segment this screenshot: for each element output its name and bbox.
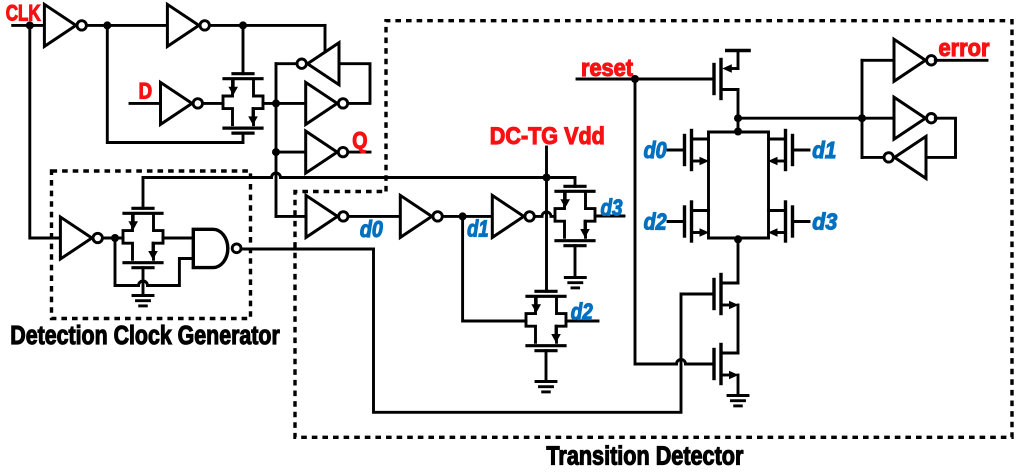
transistor M3 (d2)	[685, 202, 710, 241]
wire TG4 out	[566, 320, 598, 323]
transmission gate TG4 (d2)	[526, 291, 566, 350]
wire reset input	[577, 78, 712, 81]
wire detect clock path	[374, 249, 714, 412]
wire M4 gate lead	[793, 220, 810, 223]
box Transition Detector	[295, 21, 1012, 438]
wire error out	[935, 59, 987, 62]
wire dc-tg horizontal with hop	[143, 173, 575, 186]
inverter U11 (d1 buffer)	[492, 195, 534, 237]
svg-text:d1: d1	[812, 137, 836, 163]
nand gate U8	[193, 229, 228, 267]
wire Q1 drain down	[737, 90, 740, 133]
wire CLK input	[13, 24, 45, 27]
transistor M1 (d0)	[685, 131, 710, 170]
svg-text:CLK: CLK	[6, 0, 41, 25]
wire error latch vertical	[861, 60, 864, 157]
node dctg junction	[543, 174, 551, 182]
wire latch bus vertical	[275, 64, 278, 217]
wire TG1 top gate to clk2	[242, 25, 245, 73]
wire clk tap down to tristate inverter	[324, 25, 327, 53]
ground TG3	[565, 278, 585, 288]
inverter U10 (d1)	[400, 195, 442, 237]
node error latch junction	[858, 114, 866, 122]
wire TG4 bottom to ground	[545, 351, 548, 381]
node H top junction	[734, 128, 742, 136]
svg-text:d3: d3	[812, 208, 837, 234]
wire d0	[348, 215, 400, 218]
ground M6	[728, 396, 748, 406]
wire U1 out	[87, 24, 168, 27]
inverter U7 (clock gen input)	[60, 217, 102, 259]
svg-text:d1: d1	[467, 216, 489, 242]
wire NAND out	[242, 248, 374, 251]
wire H frame	[709, 131, 769, 134]
wire D input	[130, 102, 161, 105]
inverter U4 (feedback, tristate, points left)	[297, 43, 339, 85]
node latch junction	[272, 99, 280, 107]
node clockgen junction	[111, 234, 119, 242]
svg-text:Transition Detector: Transition Detector	[546, 443, 743, 471]
wire TG3 bottom to ground	[574, 246, 577, 277]
wire TG2 top gate up	[142, 178, 145, 209]
inverter U14 (keeper back, points left)	[884, 136, 926, 178]
wire Q tap	[276, 151, 306, 154]
wire dctg vertical to TG4	[545, 178, 548, 292]
svg-text:D: D	[139, 78, 153, 103]
wire d1 branch down to TG4	[463, 216, 526, 321]
transmission gate TG2	[123, 208, 163, 267]
transistor Q1 (reset PMOS)	[714, 60, 738, 99]
wire U5 out feedback loop	[339, 64, 370, 104]
svg-text:Q: Q	[352, 127, 367, 153]
inverter U1 (CLK buffer 1)	[44, 4, 86, 46]
wire clkb bus down to TG1 bottom gate	[107, 25, 243, 142]
inverter U2 (CLK buffer 2)	[167, 4, 209, 46]
ground TG2	[133, 296, 153, 306]
svg-text:d0: d0	[644, 137, 667, 163]
wire to error inverter	[862, 59, 894, 62]
wire TG2 out to NAND	[163, 237, 192, 240]
wire U7 out	[103, 237, 123, 240]
node detect junction	[734, 114, 742, 122]
ground TG4	[536, 382, 556, 392]
node clkb junction	[103, 21, 111, 29]
power vdd	[737, 52, 740, 69]
wire U2 out to tristate tap	[210, 24, 325, 27]
wire bypass path with hop	[115, 238, 192, 286]
node d1 junction	[459, 212, 467, 220]
wire CLK bus down to clock generator	[30, 25, 61, 238]
wire Q out	[348, 151, 370, 154]
node H bottom junction	[734, 235, 742, 243]
transistor M5 (upper stack NMOS)	[714, 275, 739, 314]
wire TG1 out to latch node	[263, 102, 306, 105]
svg-text:d2: d2	[644, 208, 667, 234]
svg-text:d3: d3	[601, 194, 623, 220]
inverter U9 (d0)	[306, 195, 348, 237]
wire latch bus elbow to d0 inverter	[276, 215, 306, 218]
svg-text:Detection Clock Generator: Detection Clock Generator	[10, 322, 280, 350]
transistor M4 (d3, mirrored)	[768, 202, 793, 241]
inverter U5 (feedback forward)	[306, 82, 348, 124]
svg-text:error: error	[939, 35, 990, 62]
wire M5 source to M6 drain	[737, 305, 740, 353]
inverter U13 (keeper forward)	[894, 97, 936, 139]
inverter U12 (error out)	[894, 39, 936, 81]
transistor M6 (lower stack NMOS)	[714, 345, 739, 384]
wire U14 out	[862, 156, 884, 159]
svg-text:d2: d2	[571, 298, 593, 324]
wire to keeper inverter	[862, 117, 894, 120]
transmission gate TG3 (d3)	[555, 186, 595, 245]
wire M1 gate lead	[668, 149, 685, 152]
inverter U3 (D input)	[161, 82, 203, 124]
wire detect to error latch	[738, 117, 862, 120]
wire M2 gate lead	[793, 149, 810, 152]
wire keeper loop	[926, 118, 956, 157]
inverter U6 (Q output)	[306, 131, 348, 173]
wire U3 out to TG1	[203, 102, 223, 105]
transistor M2 (d1, mirrored)	[768, 131, 793, 170]
transmission gate TG1	[223, 74, 263, 133]
node clk2 junction	[239, 21, 247, 29]
wire d1	[443, 215, 493, 218]
wire M6 source to ground	[737, 375, 740, 395]
box Detection Clock Generator	[52, 171, 251, 319]
wire reset down with hop	[635, 79, 713, 364]
wire M3 gate lead	[668, 220, 685, 223]
svg-text:d0: d0	[360, 216, 383, 242]
wire TG2 bottom gate to ground	[142, 268, 145, 295]
node Q tap junction	[272, 148, 280, 156]
wire TG3 out	[595, 215, 624, 218]
node CLK junction	[26, 21, 34, 29]
wire H bottom down	[737, 238, 740, 283]
wire DC-TG Vdd lead	[545, 147, 548, 178]
node reset junction	[631, 75, 639, 83]
wire U4 out to latch bus	[276, 62, 297, 65]
wire U11 out with hop over dctg	[535, 212, 555, 217]
